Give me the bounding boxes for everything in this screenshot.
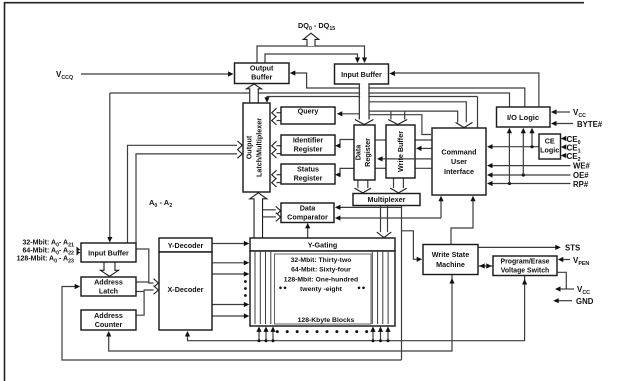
svg-text:Comparator: Comparator bbox=[287, 213, 328, 222]
svg-text:Address: Address bbox=[94, 278, 123, 287]
svg-text:Interface: Interface bbox=[444, 167, 474, 176]
svg-text:Y-Decoder: Y-Decoder bbox=[168, 241, 204, 250]
svg-text:Multiplexer: Multiplexer bbox=[368, 195, 406, 204]
svg-text:Command: Command bbox=[441, 147, 476, 156]
svg-text:Data: Data bbox=[300, 204, 317, 213]
svg-text:Data: Data bbox=[354, 144, 363, 161]
svg-text:Output: Output bbox=[250, 64, 274, 73]
svg-text:Register: Register bbox=[294, 145, 323, 154]
svg-text:STS: STS bbox=[565, 244, 580, 253]
svg-text:Register: Register bbox=[363, 138, 372, 167]
svg-text:User: User bbox=[451, 157, 467, 166]
svg-text:Buffer: Buffer bbox=[251, 73, 272, 82]
svg-text:RP#: RP# bbox=[573, 180, 589, 189]
svg-text:twenty -eight: twenty -eight bbox=[300, 286, 343, 293]
svg-text:BYTE#: BYTE# bbox=[577, 120, 603, 129]
svg-text:Address: Address bbox=[94, 311, 123, 320]
svg-text:Latch: Latch bbox=[99, 287, 118, 296]
svg-text:128-Kbyte Blocks: 128-Kbyte Blocks bbox=[298, 317, 355, 324]
svg-text:Program/Erase: Program/Erase bbox=[500, 259, 549, 266]
svg-text:Write Buffer: Write Buffer bbox=[396, 131, 405, 172]
svg-text:Input Buffer: Input Buffer bbox=[341, 70, 382, 79]
svg-text:Identifier: Identifier bbox=[293, 136, 324, 145]
svg-text:Register: Register bbox=[294, 174, 323, 183]
svg-text:OE#: OE# bbox=[573, 171, 589, 180]
svg-text:64-Mbit: Sixty-four: 64-Mbit: Sixty-four bbox=[291, 267, 351, 274]
svg-text:Status: Status bbox=[297, 165, 319, 174]
svg-text:Counter: Counter bbox=[95, 320, 123, 329]
svg-text:Machine: Machine bbox=[436, 260, 465, 269]
svg-text:Query: Query bbox=[298, 107, 319, 116]
svg-text:X-Decoder: X-Decoder bbox=[168, 285, 204, 294]
svg-text:WE#: WE# bbox=[573, 162, 591, 171]
svg-text:128-Mbit: One-hundred: 128-Mbit: One-hundred bbox=[284, 277, 358, 284]
svg-text:GND: GND bbox=[576, 297, 594, 306]
svg-text:32-Mbit: Thirty-two: 32-Mbit: Thirty-two bbox=[291, 257, 352, 264]
svg-text:Y-Gating: Y-Gating bbox=[308, 241, 338, 250]
svg-text:CE: CE bbox=[545, 137, 555, 146]
svg-text:Input Buffer: Input Buffer bbox=[88, 249, 129, 258]
svg-text:Voltage Switch: Voltage Switch bbox=[501, 268, 550, 275]
svg-text:Logic: Logic bbox=[540, 146, 559, 155]
svg-text:Output: Output bbox=[245, 135, 254, 159]
svg-text:I/O Logic: I/O Logic bbox=[507, 113, 539, 122]
svg-text:Write State: Write State bbox=[432, 250, 469, 259]
svg-text:Latch/Multiplexer: Latch/Multiplexer bbox=[255, 118, 264, 177]
